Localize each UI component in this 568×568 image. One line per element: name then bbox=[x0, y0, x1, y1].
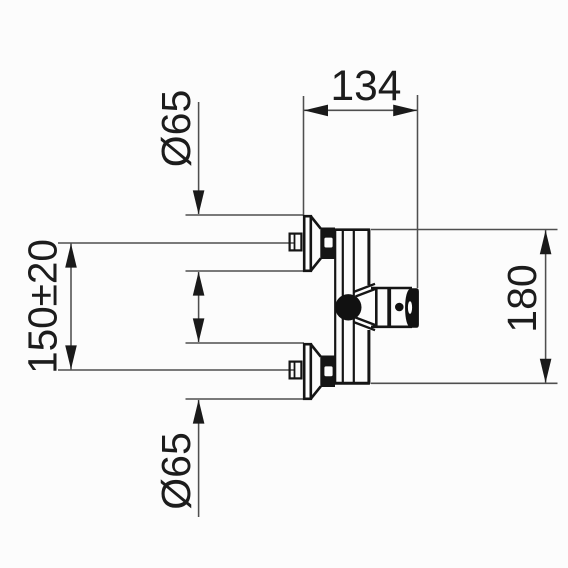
upper flange bbox=[304, 216, 311, 271]
body bottom edge bbox=[334, 382, 370, 385]
dimension line 180 vertical bbox=[545, 230, 547, 384]
svg-text:Ø65: Ø65 bbox=[153, 90, 199, 168]
lower union nut inner line bbox=[294, 361, 296, 380]
leader line Ø65 middle segment bbox=[198, 272, 200, 342]
spout cone lower outer line bbox=[354, 322, 376, 330]
upper adapter block bbox=[320, 228, 335, 260]
arrow Ø65 mid down bbox=[193, 318, 205, 342]
body top edge bbox=[334, 228, 370, 231]
upper adapter window bbox=[324, 238, 332, 248]
dimension line 150±20 vertical bbox=[70, 243, 72, 370]
svg-text:Ø65: Ø65 bbox=[153, 432, 199, 510]
extension line lower-flange-bottom (y=399) bbox=[186, 398, 305, 400]
leader line Ø65 bottom bbox=[198, 400, 200, 517]
spout box top edge bbox=[371, 287, 412, 290]
extension line 180 bottom (y=383.3) bbox=[371, 382, 558, 384]
body rib line 2 bbox=[353, 231, 355, 382]
ball joint bbox=[335, 294, 361, 320]
extension line 180 top (y=229.5) bbox=[371, 229, 558, 231]
spout end cap highlight bbox=[408, 301, 412, 314]
body left edge bbox=[334, 229, 336, 384]
arrow 134 right bbox=[393, 105, 417, 117]
upper cone top slant bbox=[311, 217, 321, 229]
svg-text:134: 134 bbox=[331, 63, 402, 110]
arrow Ø65 top (down) bbox=[193, 190, 205, 214]
extension line left bottom (y=370) bbox=[58, 369, 295, 371]
lower adapter block bbox=[320, 356, 335, 388]
lower cone bottom slant bbox=[311, 386, 321, 398]
arrow Ø65 mid up bbox=[193, 272, 205, 296]
spout box bottom edge bbox=[371, 325, 412, 328]
body right edge upper segment bbox=[367, 229, 370, 285]
upper cone bottom slant bbox=[311, 258, 321, 270]
extension line 134 right vertical (x=417.5) bbox=[417, 95, 419, 288]
extension line 134 left vertical (x=303.5) bbox=[303, 96, 305, 216]
arrow 180 top bbox=[540, 230, 552, 254]
upper union nut bbox=[290, 234, 302, 251]
spout cone upper outer line bbox=[354, 284, 376, 292]
spout dot bbox=[395, 303, 404, 312]
spout cone upper inner line bbox=[356, 289, 377, 297]
lower cone top slant bbox=[311, 345, 321, 357]
spout divider bbox=[387, 288, 391, 328]
arrow 134 left bbox=[304, 105, 328, 117]
svg-text:180: 180 bbox=[499, 264, 545, 332]
lower union nut bbox=[290, 362, 302, 379]
spout box left edge bbox=[375, 287, 378, 328]
body right edge lower segment bbox=[367, 330, 370, 384]
spout end cap bbox=[405, 288, 419, 328]
arrow 150 top bbox=[65, 244, 77, 268]
lower flange bbox=[304, 344, 311, 399]
spout cone lower inner line bbox=[356, 318, 377, 326]
arrow Ø65 bottom (up) bbox=[193, 400, 205, 424]
extension line left top (y=243) bbox=[58, 242, 295, 244]
upper union nut inner line bbox=[294, 233, 296, 252]
arrow 150 bottom bbox=[65, 345, 77, 369]
extension line flange-top (y=215) bbox=[186, 214, 305, 216]
lower adapter window bbox=[324, 366, 332, 376]
svg-text:150±20: 150±20 bbox=[20, 239, 66, 374]
leader line Ø65 top bbox=[198, 102, 200, 214]
dimension line 134 horizontal bbox=[304, 109, 418, 111]
extension line flange-bottom (y=271) bbox=[186, 270, 305, 272]
body rib line 1 bbox=[342, 231, 344, 382]
arrow 180 bottom bbox=[540, 359, 552, 383]
extension line lower-flange-top (y=343) bbox=[186, 342, 305, 344]
